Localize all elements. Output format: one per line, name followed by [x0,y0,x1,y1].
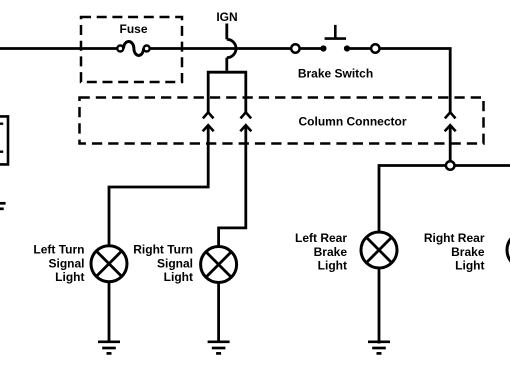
svg-text:IGN: IGN [216,10,237,24]
svg-text:Light: Light [318,259,347,273]
brake switch S1: pushbutton actuator stem [334,25,337,39]
svg-text:Brake Switch: Brake Switch [298,67,373,81]
svg-text:Column Connector: Column Connector [299,114,407,128]
lamp L2: Right Turn Signal Light (circle with X) [201,247,237,283]
connector pin 2 (right turn branch): lower arrow chevron [240,125,251,131]
svg-text:Light: Light [164,270,193,284]
brake switch S1: left terminal circle [291,44,299,52]
wire: lamp L3 to ground [378,267,381,344]
node: junction terminal circle [446,161,455,170]
ground G1 (below lamp L1) [98,342,120,354]
svg-text:Left Rear: Left Rear [295,231,347,245]
svg-text:Brake: Brake [314,245,348,259]
svg-text:Left Turn: Left Turn [33,243,84,257]
brake switch S1: right contact dot [344,45,350,51]
wire: lamp L1 to ground [108,280,111,342]
brake switch S1: pushbutton actuator bar [325,37,346,40]
wire: IGN crossover hop over bus (semicircle) [227,39,236,57]
lamp L3: Left Rear Brake Light (circle with X) [361,232,397,268]
wire: bus segment from fuse to brake switch contact 1 [149,47,323,50]
partial box inner tick 2 [0,150,3,152]
brake switch S1: left contact dot [320,45,326,51]
fuse F1 symbol: wavy element [124,42,144,56]
connector pin 1 (left turn branch): upper socket chevron [203,112,214,118]
wire: IGN lead down to hop [225,24,228,40]
wire: left turn branch from connector down, left, down to lamp L1 [109,125,208,245]
svg-text:Right Turn: Right Turn [133,243,193,257]
wire: bus from brake switch contact 2 to right corner, down to column connector [347,49,450,113]
svg-text:Fuse: Fuse [119,22,147,36]
wire: right turn branch from connector down, left, down to lamp L2 [219,125,246,247]
brake switch S1: right terminal circle [371,44,379,52]
partial box inner tick 1 [0,122,3,124]
svg-text:Light: Light [455,259,484,273]
wire: IGN lead from hop down to T-split bar [225,58,228,71]
connector pin 2 (right turn branch): upper socket chevron [241,112,252,118]
partial ground/terminal mark at left edge [0,202,6,205]
wire: rear brake lamp feed, corner above L3 through junction to right edge [379,166,510,232]
fuse box (dashed) [81,17,182,82]
connector pin 3 (brake branch): upper socket chevron [445,112,456,118]
connector pin 3 (brake branch): lower arrow chevron [445,125,456,131]
svg-text:Right Rear: Right Rear [424,231,485,245]
wire: brake branch from connector down to junction node [449,125,452,162]
svg-text:Signal: Signal [48,256,84,270]
svg-text:Light: Light [55,270,84,284]
svg-text:Brake: Brake [451,245,485,259]
connector pin 1 (left turn branch): lower arrow chevron [203,125,214,131]
wire: lamp L2 to ground [217,281,220,342]
ground G2 (below lamp L2) [208,342,230,354]
column connector box (dashed) [80,98,484,144]
lamp L4: Right Rear Brake Light (partially visible at right edge) [507,232,510,268]
wire: main bus from left edge through fuse to brake switch contact 1 [0,47,118,50]
fuse F1 symbol: right terminal circle [144,46,150,52]
wire: T-split bar feeding the two turn-signal branches [208,72,246,112]
fuse F1 symbol: left terminal circle [117,46,123,52]
svg-text:Signal: Signal [157,256,193,270]
ground G3 (below lamp L3) [368,342,390,354]
lamp L1: Left Turn Signal Light (circle with X) [91,246,127,282]
partial component box at left edge [0,116,8,164]
